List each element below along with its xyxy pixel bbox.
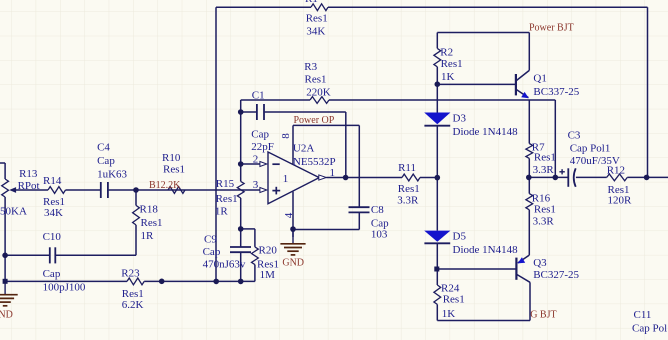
pin number 3	[253, 179, 259, 191]
capacitor C4 1uK63	[101, 182, 108, 198]
wire Q1 base	[437, 83, 516, 85]
svg-text:C3: C3	[568, 129, 581, 141]
svg-text:3.3R: 3.3R	[397, 194, 419, 206]
svg-text:470nJ63v: 470nJ63v	[203, 258, 246, 270]
svg-text:Diode 1N4148: Diode 1N4148	[453, 126, 519, 138]
label Res1	[122, 288, 144, 300]
svg-text:BC327-25: BC327-25	[533, 269, 579, 281]
junction pot/C10 node	[2, 253, 8, 259]
label 1K	[441, 71, 455, 83]
svg-text:C1: C1	[252, 90, 265, 102]
resistor R2 1K	[434, 48, 441, 66]
wire R7/R16 vertical	[528, 100, 530, 255]
label NE5532P	[293, 156, 336, 168]
label R13	[19, 168, 38, 180]
resistor R12 120R	[607, 174, 628, 181]
wire Q3 collector	[517, 275, 530, 321]
svg-text:Cap: Cap	[97, 155, 115, 167]
svg-text:Power BJT: Power BJT	[529, 22, 574, 33]
label Res1	[534, 203, 556, 215]
label Res1	[163, 163, 185, 175]
label R15	[216, 178, 235, 190]
wire diode chain vertical	[436, 33, 438, 321]
junction R3 loop node	[553, 175, 559, 181]
wire C8 bottom to ground node	[293, 213, 359, 230]
junction R7/R16 node	[526, 175, 532, 181]
label R18	[140, 204, 159, 216]
capacitor C10 100pJ100	[50, 247, 56, 263]
wire op-amp pin 2 stub	[241, 163, 260, 165]
svg-text:R13: R13	[19, 168, 38, 180]
resistor R20 1M	[252, 247, 259, 265]
resistor R24 1K	[434, 285, 441, 304]
label C9	[204, 233, 217, 245]
label Cap Pol1	[632, 323, 668, 335]
junction diode chain node	[435, 175, 441, 181]
diode D5 1N4148	[424, 231, 450, 244]
label Res1	[443, 293, 465, 305]
label 1K	[442, 308, 456, 320]
wire R20 branch	[241, 229, 255, 282]
svg-text:6.2K: 6.2K	[122, 299, 144, 311]
resistor R16 3.3R	[526, 194, 533, 210]
label 1R	[141, 230, 155, 242]
transistor Q1 emitter arrow	[521, 92, 529, 98]
label R3	[304, 61, 317, 73]
label 22pF	[251, 141, 274, 153]
wire C10 net	[5, 225, 136, 255]
label 100pJ100	[43, 281, 86, 293]
transistor Q1 BC337-25 base bar	[515, 74, 517, 95]
pin number 2	[253, 154, 259, 166]
svg-text:R23: R23	[121, 268, 140, 280]
wire Q1 collector	[516, 33, 529, 81]
wire pot bottom	[4, 197, 6, 281]
wire op-amp output	[326, 177, 437, 179]
pin number 4 (rotated)	[283, 212, 295, 218]
resistor R23 6.2K	[127, 278, 144, 285]
net label G BJT	[530, 309, 556, 320]
wire Q3 base	[437, 268, 516, 270]
svg-text:Cap: Cap	[43, 268, 61, 280]
capacitor C1 22pF	[257, 104, 264, 120]
svg-text:R1: R1	[305, 0, 318, 5]
label Cap	[97, 155, 115, 167]
svg-text:120R: 120R	[608, 195, 633, 207]
capacitor C3 470uF/35V (polarized)	[559, 168, 575, 187]
pin number 8 (rotated)	[280, 133, 292, 139]
pin number 1 (inside op-amp)	[283, 173, 289, 185]
label D5	[453, 231, 467, 243]
svg-text:R15: R15	[216, 178, 235, 190]
svg-text:Res1: Res1	[441, 58, 463, 70]
resistor R11 3.3R	[402, 174, 420, 181]
svg-text:Power OP: Power OP	[294, 115, 335, 126]
svg-text:2: 2	[253, 154, 259, 166]
label R20	[259, 244, 278, 256]
label Res1	[534, 152, 556, 164]
capacitor C9 470nJ63v	[230, 247, 251, 252]
wire R18 top lead	[135, 190, 137, 205]
svg-text:1K: 1K	[442, 308, 456, 320]
label 3.3R	[533, 164, 555, 176]
net label B12.2K	[149, 180, 181, 191]
transistor Q3 emitter arrow	[518, 257, 526, 263]
svg-text:Res1: Res1	[398, 183, 420, 195]
svg-text:1R: 1R	[141, 230, 155, 242]
label Cap Pol1	[570, 143, 611, 155]
svg-text:103: 103	[371, 228, 388, 240]
wire input net	[16, 189, 260, 191]
wire C9 bottom lead	[240, 252, 242, 281]
svg-text:Res1: Res1	[534, 203, 556, 215]
wire C3 to R12	[576, 176, 607, 178]
label R16	[532, 193, 551, 205]
resistor R1 (top 34K)	[311, 4, 328, 11]
resistor R18 1R	[133, 205, 140, 225]
label Res1	[141, 217, 163, 229]
label C8	[371, 204, 384, 216]
svg-text:3: 3	[253, 179, 259, 191]
wire pot top stub	[0, 163, 5, 179]
label BC327-25	[533, 269, 579, 281]
label 1R	[215, 206, 229, 218]
wire R2 top rail	[437, 32, 529, 34]
svg-text:1M: 1M	[260, 269, 276, 281]
label 470nJ63v	[203, 258, 246, 270]
label R2	[440, 46, 453, 58]
label Res1	[306, 13, 328, 25]
label Q1	[533, 72, 546, 84]
label R24	[441, 283, 460, 295]
svg-text:RPot: RPot	[18, 180, 40, 192]
svg-text:4: 4	[283, 212, 295, 218]
svg-text:Res1: Res1	[306, 13, 328, 25]
svg-text:Diode 1N4148: Diode 1N4148	[453, 244, 519, 256]
label Cap	[371, 218, 389, 230]
wire op-amp pin 8 to C8	[293, 125, 359, 207]
svg-text:3.3R: 3.3R	[533, 215, 555, 227]
junction square bottom-left	[3, 279, 8, 284]
label R23	[121, 268, 140, 280]
label 1M	[260, 269, 276, 281]
junction R18 top node	[133, 187, 139, 193]
label 34K	[306, 25, 325, 37]
svg-text:R14: R14	[43, 175, 62, 187]
ground GND (bottom-left)	[0, 295, 18, 306]
label Res1	[608, 184, 630, 196]
label Cap	[251, 128, 269, 140]
wire Q3 emitter diag	[518, 255, 529, 263]
resistor R3 220K	[310, 97, 329, 104]
svg-text:8: 8	[280, 133, 292, 139]
junction R2/Q1 base node	[435, 81, 441, 87]
wire C1/R15 vertical	[240, 112, 242, 247]
svg-text:1: 1	[283, 173, 289, 185]
label 220K	[306, 87, 331, 99]
resistor R14 34K	[48, 187, 66, 194]
label R14	[43, 175, 62, 187]
wire bottom BJT net	[437, 320, 530, 322]
junction square Q3 base node	[434, 267, 439, 272]
net label Power OP	[294, 115, 335, 126]
label Res1	[257, 259, 279, 271]
svg-text:C4: C4	[97, 142, 110, 154]
label R12	[607, 165, 625, 177]
svg-text:Cap: Cap	[203, 246, 221, 258]
label Cap	[203, 246, 221, 258]
svg-text:1K: 1K	[441, 71, 455, 83]
svg-text:Q3: Q3	[533, 257, 547, 269]
label C3	[568, 129, 581, 141]
label C1	[252, 90, 265, 102]
junction right rail node	[644, 175, 650, 181]
svg-text:C10: C10	[43, 231, 62, 243]
label R7	[532, 142, 545, 154]
junction bottom net node	[159, 279, 165, 285]
label 470uF/35V	[570, 155, 620, 167]
label C4	[97, 142, 110, 154]
svg-text:U2A: U2A	[293, 143, 314, 155]
wire R12 to right rail	[627, 176, 668, 178]
wire R3 loop vertical	[554, 100, 556, 177]
svg-text:Res1: Res1	[305, 74, 327, 86]
label Res1	[398, 183, 420, 195]
ground stem (op-amp)	[292, 229, 294, 243]
junction output node	[343, 175, 349, 181]
svg-text:Cap: Cap	[251, 128, 269, 140]
svg-text:Res1: Res1	[163, 163, 185, 175]
svg-text:GND: GND	[282, 257, 304, 268]
label U2A	[293, 143, 314, 155]
svg-text:22pF: 22pF	[251, 141, 274, 153]
svg-text:R18: R18	[140, 204, 159, 216]
power text GND (bottom-left)	[0, 310, 13, 321]
label Diode 1N4148	[453, 126, 519, 138]
svg-text:1R: 1R	[215, 206, 229, 218]
resistor R15 1R	[237, 181, 244, 198]
label R1	[305, 0, 318, 5]
junction left rail bottom node	[213, 279, 219, 285]
label 3.3R	[397, 194, 419, 206]
potentiometer R13 RPot	[2, 179, 16, 197]
op-amp pin 2 arrow	[260, 162, 267, 167]
power text GND (op-amp)	[282, 257, 304, 268]
label Res1	[43, 196, 65, 208]
svg-text:B12.2K: B12.2K	[149, 180, 181, 191]
wire Q1 emitter	[517, 90, 529, 98]
svg-text:Res1: Res1	[216, 193, 238, 205]
svg-text:Res1: Res1	[534, 152, 556, 164]
wire R3 branch	[241, 100, 556, 112]
junction C9 top node	[238, 226, 244, 232]
junction pin2 node	[238, 161, 244, 167]
wire left rail down	[215, 7, 217, 281]
ground GND (op-amp)	[280, 244, 305, 255]
op-amp pin 3 arrow	[260, 188, 267, 193]
svg-text:R12: R12	[607, 165, 625, 177]
svg-text:NE5532P: NE5532P	[293, 156, 336, 168]
svg-text:GND: GND	[0, 310, 13, 321]
svg-text:R3: R3	[304, 61, 317, 73]
op-amp U2A triangle	[268, 152, 319, 204]
label 6.2K	[122, 299, 144, 311]
pin number 1 (output)	[330, 167, 336, 179]
svg-text:D3: D3	[453, 113, 467, 125]
svg-text:Cap Pol1: Cap Pol1	[570, 143, 611, 155]
label Res1	[441, 58, 463, 70]
label 50KA	[0, 206, 27, 218]
svg-text:R11: R11	[398, 162, 416, 174]
label R11	[398, 162, 416, 174]
svg-text:R10: R10	[162, 152, 181, 164]
svg-text:R2: R2	[440, 46, 453, 58]
svg-text:Res1: Res1	[443, 293, 465, 305]
label 120R	[608, 195, 633, 207]
svg-text:C11: C11	[634, 309, 652, 321]
svg-text:34K: 34K	[44, 207, 63, 219]
svg-text:R20: R20	[259, 244, 278, 256]
wire right rail down	[647, 7, 649, 177]
label Res1	[305, 74, 327, 86]
svg-text:3.3R: 3.3R	[533, 164, 555, 176]
junction C9 bottom node	[238, 279, 244, 285]
junction C1/R3 node	[238, 109, 244, 115]
svg-text:D5: D5	[453, 231, 467, 243]
transistor Q3 BC327-25 base bar	[515, 258, 517, 280]
resistor R10 12.2K	[168, 187, 185, 194]
capacitor C8 103	[349, 207, 370, 212]
op-amp output arrow	[319, 175, 327, 180]
ground stem (bottom-left)	[4, 281, 6, 294]
label 34K	[44, 207, 63, 219]
label 1uK63	[97, 168, 127, 180]
svg-text:100pJ100: 100pJ100	[43, 281, 86, 293]
svg-text:BC337-25: BC337-25	[533, 86, 579, 98]
svg-text:Cap Pol1: Cap Pol1	[632, 323, 668, 335]
svg-text:Q1: Q1	[533, 72, 546, 84]
junction pin4/C8 node	[290, 226, 296, 232]
wire C1 horizontal	[241, 111, 346, 113]
label C10	[43, 231, 62, 243]
label BC337-25	[533, 86, 579, 98]
svg-text:1: 1	[330, 167, 336, 179]
net label Power BJT	[529, 22, 574, 33]
label D3	[453, 113, 467, 125]
diode D3 1N4148	[424, 113, 450, 126]
label Res1	[216, 193, 238, 205]
wire output to C3	[529, 176, 568, 178]
op-amp plus input mark	[272, 187, 280, 195]
wire op-amp pin 4 to GND	[292, 192, 294, 237]
svg-text:34K: 34K	[306, 25, 325, 37]
svg-text:220K: 220K	[306, 87, 331, 99]
label RPot	[18, 180, 40, 192]
svg-text:G BJT: G BJT	[530, 309, 556, 320]
label 3.3R	[533, 215, 555, 227]
svg-text:C8: C8	[371, 204, 384, 216]
label R10	[162, 152, 181, 164]
svg-text:50KA: 50KA	[0, 206, 27, 218]
label Diode 1N4148	[453, 244, 519, 256]
resistor R7 3.3R	[526, 144, 533, 159]
wire top feedback rail	[216, 6, 648, 8]
svg-text:C9: C9	[204, 233, 217, 245]
wire C1 to output vertical	[345, 112, 347, 178]
label Cap	[43, 268, 61, 280]
label Q3	[533, 257, 547, 269]
label 103	[371, 228, 388, 240]
wire bottom net	[5, 280, 255, 282]
label C11	[634, 309, 652, 321]
svg-text:Res1: Res1	[141, 217, 163, 229]
op-amp minus input mark	[272, 163, 279, 165]
svg-text:1uK63: 1uK63	[97, 168, 127, 180]
